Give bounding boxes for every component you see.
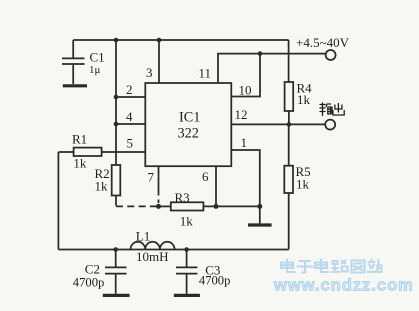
capacitor C1 <box>62 40 105 84</box>
resistor R5 <box>284 124 310 193</box>
svg-text:7: 7 <box>148 170 155 185</box>
wire bottom rail <box>58 249 288 251</box>
inductor L1 <box>131 229 175 265</box>
label output (Chinese) <box>320 103 344 116</box>
capacitor C2 <box>73 250 127 294</box>
svg-text:1k: 1k <box>95 179 109 194</box>
wire pin 10 <box>231 54 260 97</box>
svg-text:IC1: IC1 <box>179 110 200 126</box>
svg-text:1μ: 1μ <box>89 64 101 76</box>
svg-text:1k: 1k <box>180 214 194 229</box>
svg-text:5: 5 <box>127 136 134 151</box>
resistor R2 <box>95 165 121 196</box>
wire pin 3 riser <box>158 40 160 83</box>
svg-text:L1: L1 <box>136 229 150 244</box>
svg-text:4700p: 4700p <box>199 273 230 287</box>
terminal output <box>325 120 335 130</box>
svg-text:6: 6 <box>202 169 209 184</box>
terminal +V <box>326 50 336 60</box>
svg-text:1k: 1k <box>296 177 310 192</box>
node junction pin6 / R3 wire <box>214 204 219 209</box>
svg-text:11: 11 <box>199 66 212 81</box>
svg-text:R3: R3 <box>175 190 190 205</box>
svg-text:322: 322 <box>178 126 199 142</box>
svg-text:3: 3 <box>146 65 153 80</box>
wire pin 1 <box>231 150 259 206</box>
svg-text:10: 10 <box>239 83 252 98</box>
node junction pin2 <box>114 95 119 100</box>
node junction top rail / pin2-4-5 riser <box>114 38 119 43</box>
svg-text:C2: C2 <box>85 262 100 277</box>
wire pin 2 <box>116 96 145 98</box>
svg-text:www.cndzz.com: www.cndzz.com <box>273 277 414 295</box>
capacitor C3 <box>176 250 230 294</box>
ground under C3 <box>174 294 200 297</box>
wire pin 4 <box>116 123 145 125</box>
wire left drop from R1 <box>57 152 59 250</box>
svg-text:C1: C1 <box>90 50 105 65</box>
wire pin 11 riser and +V line <box>218 54 325 83</box>
node junction pin10 riser / +V line <box>258 51 263 56</box>
wire pin 12 to output <box>231 123 324 125</box>
ground at pin1 node <box>259 206 261 223</box>
svg-text:2: 2 <box>126 82 133 97</box>
node junction pin12 / R4 / R5 <box>287 122 292 127</box>
wire R2 bottom lead <box>115 196 117 206</box>
node junction pin4 <box>114 122 119 127</box>
svg-text:R1: R1 <box>72 132 87 147</box>
svg-text:12: 12 <box>235 107 248 122</box>
IC U1 box <box>145 83 231 166</box>
watermark line 1 (Chinese site name) <box>281 260 382 273</box>
node junction top rail / pin3 riser <box>157 38 162 43</box>
svg-text:4700p: 4700p <box>73 275 104 289</box>
resistor R4 <box>285 81 313 112</box>
wire dashed R2 to pin7 node <box>116 205 159 207</box>
ground under C2 <box>103 294 130 297</box>
wire top-right corner drop to R4 <box>288 40 290 82</box>
resistor R3 <box>159 190 260 229</box>
svg-text:1: 1 <box>241 135 248 150</box>
node junction pin1 / R3 wire / ground <box>257 204 262 209</box>
wire R4 bottom lead <box>288 111 290 124</box>
svg-text:4: 4 <box>126 109 133 124</box>
node junction C3 tap <box>184 247 189 252</box>
wire pin 6 drop <box>215 166 217 206</box>
svg-text:+4.5~40V: +4.5~40V <box>296 35 350 50</box>
wire top rail <box>73 39 288 41</box>
node junction C2 tap <box>113 247 118 252</box>
svg-text:1k: 1k <box>297 92 311 107</box>
svg-text:1k: 1k <box>73 156 87 171</box>
ground under C1 <box>63 84 87 87</box>
wire pin 7 drop (partly dashed) <box>158 166 160 203</box>
wire R5 bottom lead <box>288 193 290 250</box>
node junction pin7 / R3 <box>156 204 161 209</box>
svg-text:10mH: 10mH <box>136 249 169 264</box>
wire riser pins 2/4 column <box>115 40 117 165</box>
resistor R1 <box>58 132 145 171</box>
